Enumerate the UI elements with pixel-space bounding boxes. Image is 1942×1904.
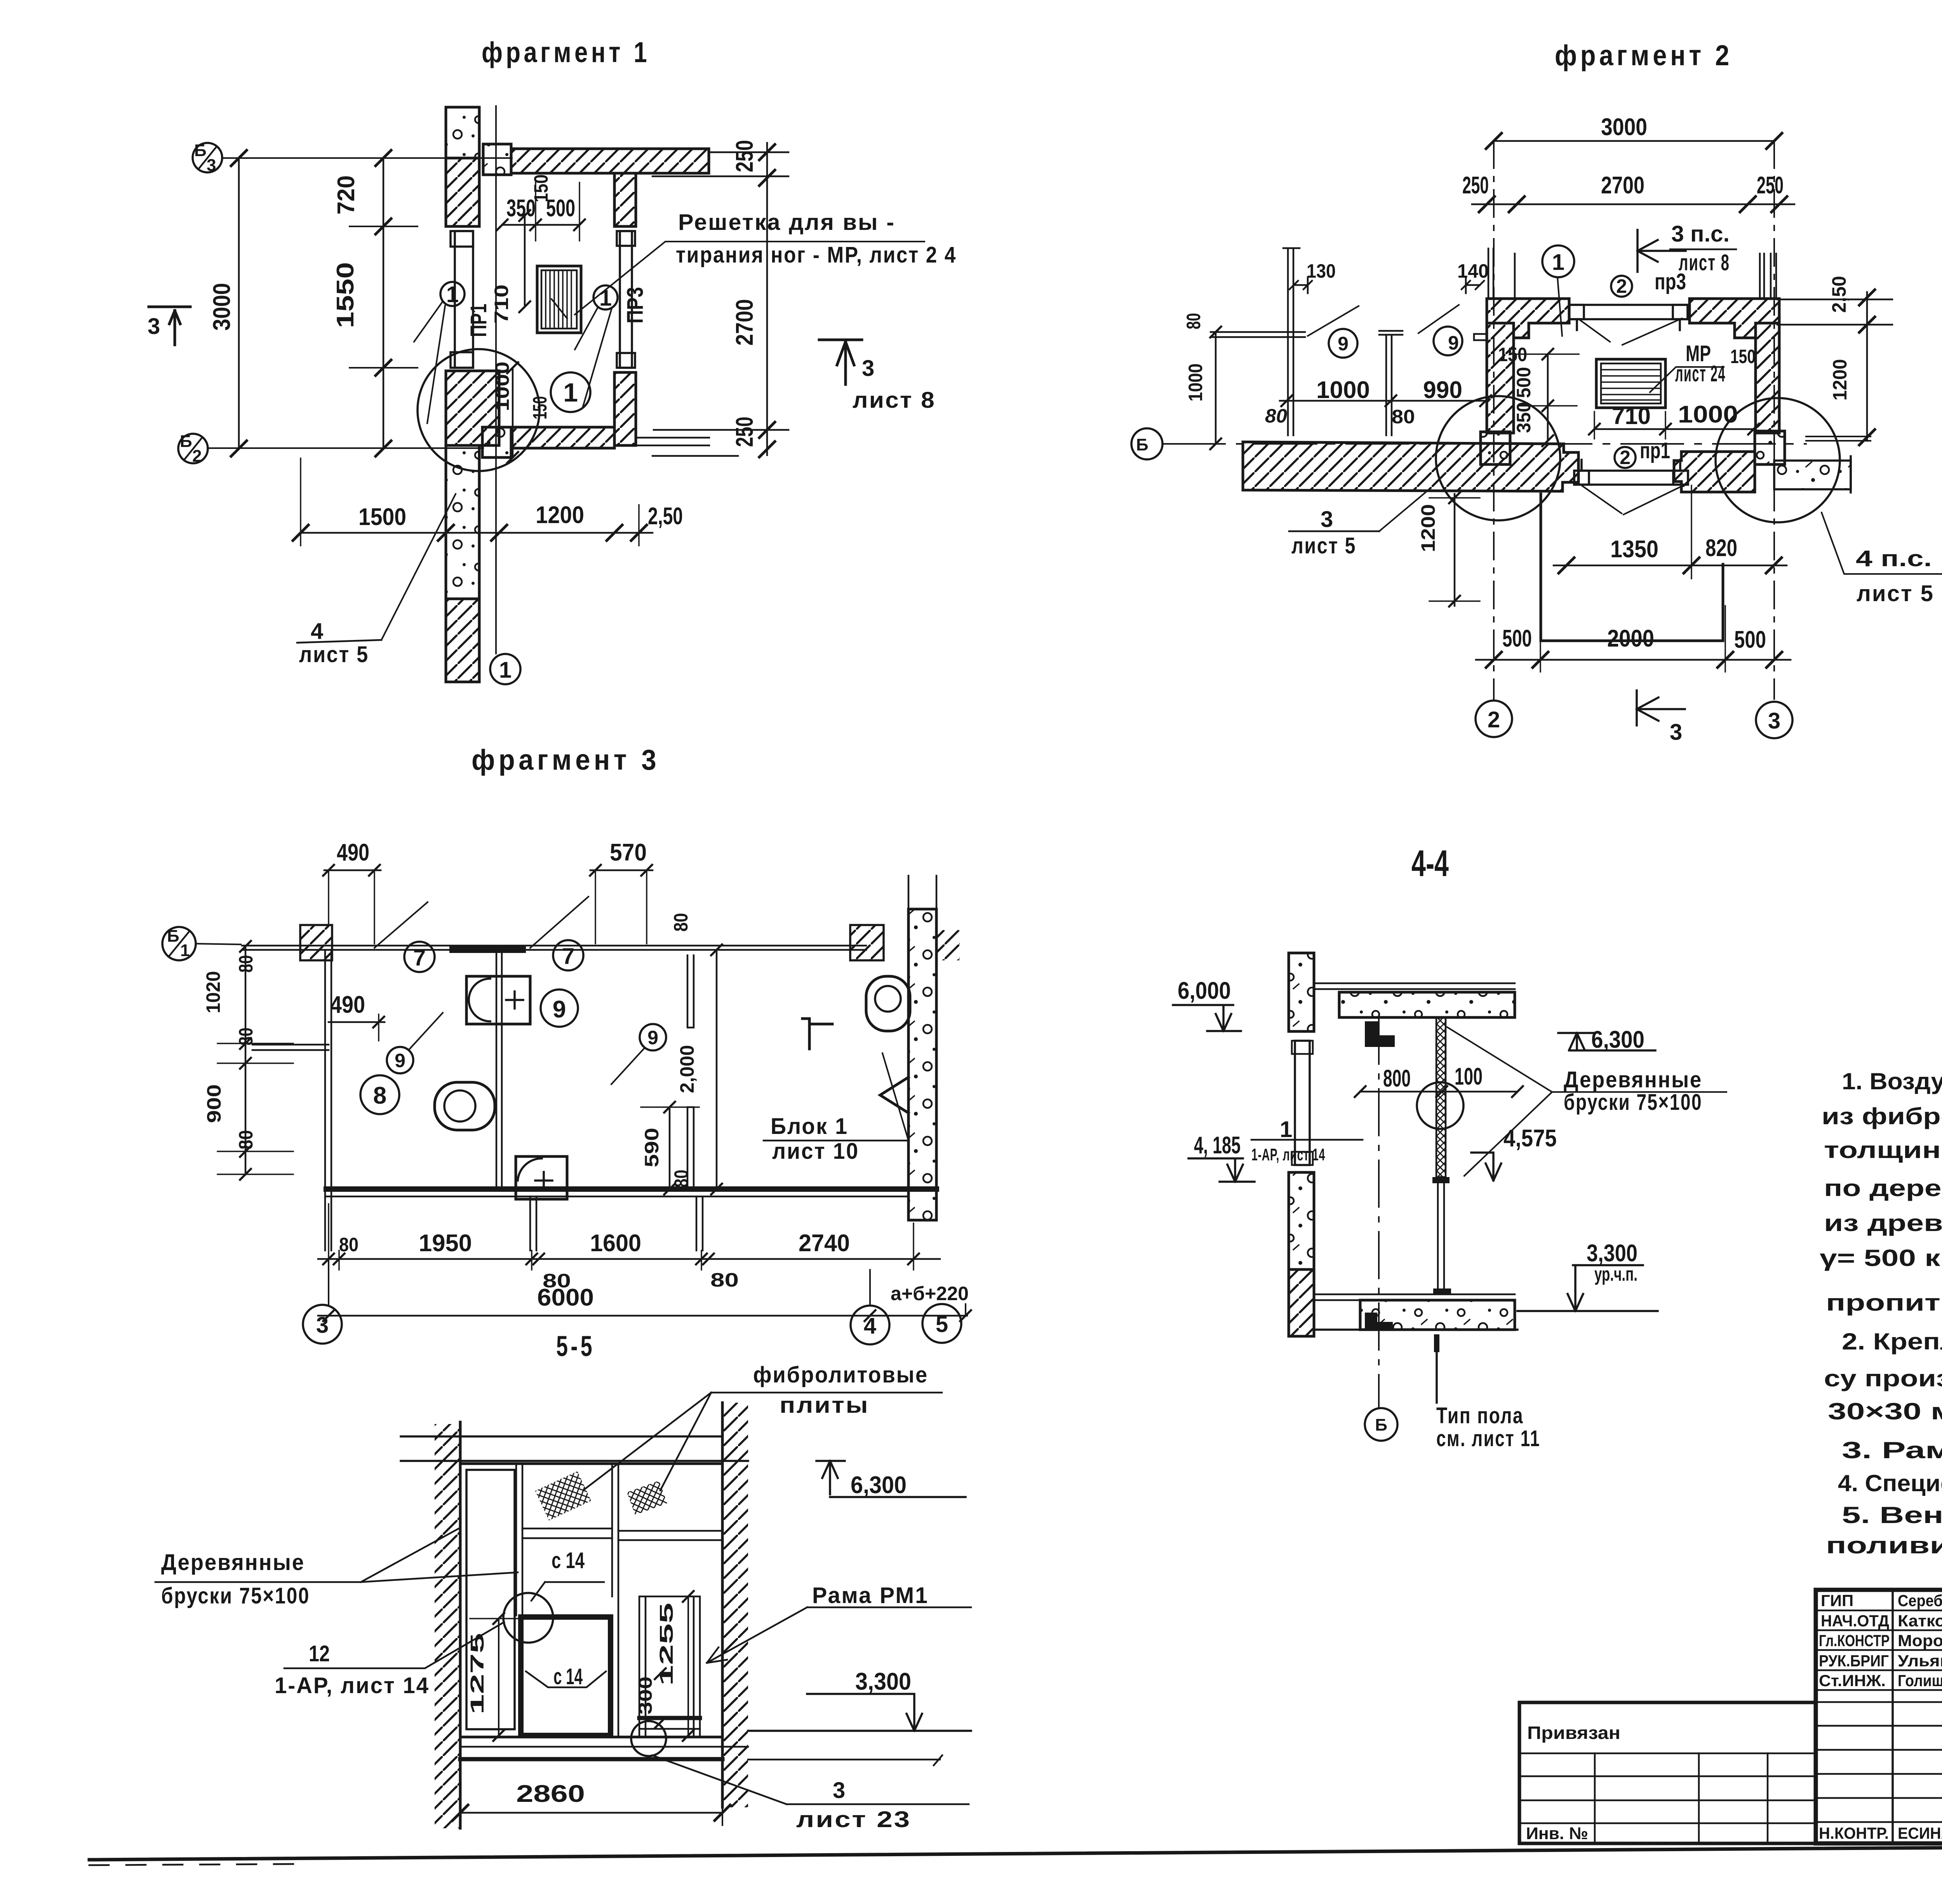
circle 2 pr1: [1615, 447, 1636, 468]
wall brick below window: [446, 371, 499, 445]
svg-text:Решетка для вы -: Решетка для вы -: [678, 210, 895, 235]
dim 1255: [687, 1596, 689, 1735]
svg-text:лист 8: лист 8: [853, 388, 936, 413]
svg-text:Ульянова: Ульянова: [1898, 1652, 1942, 1670]
leader slash 7a: [374, 902, 428, 948]
svg-text:100: 100: [1455, 1063, 1483, 1090]
axis circle B 44: [1365, 1408, 1397, 1441]
svg-text:ЕСИНА: ЕСИНА: [1898, 1824, 1942, 1842]
section arrow 3 bottom: [1637, 690, 1685, 725]
svg-text:4 п.с.: 4 п.с.: [1856, 546, 1932, 571]
elev 4185 mark: [1189, 1158, 1255, 1182]
svg-text:1500: 1500: [358, 504, 406, 530]
dim line 3000 top: [1494, 140, 1774, 142]
svg-text:из древесины хвойных пород: из древесины хвойных пород с объёмной ма…: [1824, 1210, 1942, 1236]
svg-text:по деревянному каркасу сеч.: по деревянному каркасу сеч. 100×75. Карк…: [1824, 1175, 1942, 1201]
top wall band: [511, 149, 709, 173]
svg-text:4-4: 4-4: [1411, 843, 1449, 884]
svg-text:250: 250: [1757, 172, 1784, 199]
right dim line 250/2700/250: [766, 143, 768, 455]
svg-text:Рама РМ1: Рама РМ1: [812, 1583, 929, 1608]
svg-text:2700: 2700: [731, 299, 758, 346]
bottom dim line 2: [318, 1315, 967, 1317]
svg-text:80: 80: [235, 1028, 257, 1045]
svg-text:бруски 75×100: бруски 75×100: [161, 1583, 310, 1608]
big detail circle: [418, 349, 539, 471]
svg-text:с 14: с 14: [552, 1548, 585, 1573]
right stub partition upper: [687, 955, 694, 1028]
svg-text:Катков: Катков: [1898, 1612, 1942, 1630]
axis circle B/3: [193, 143, 222, 172]
svg-text:250: 250: [731, 417, 758, 447]
leader MR: [1650, 367, 1724, 392]
signature table texts: [1819, 1591, 1942, 1842]
window PR3 frame: [617, 231, 635, 368]
leader 4 ps bottom right: [1822, 513, 1942, 574]
dim line 350/500: [502, 224, 579, 226]
room circle 1: [551, 372, 590, 412]
svg-text:ПР1: ПР1: [466, 304, 491, 337]
svg-text:2: 2: [1620, 447, 1631, 468]
bottom dim line 1500/1200/250: [301, 532, 653, 534]
svg-text:плиты: плиты: [780, 1393, 869, 1418]
horizontal dim 1000/990: [1280, 400, 1487, 402]
svg-text:Серебрякова: Серебрякова: [1898, 1591, 1942, 1610]
svg-text:тирания ног - МР, лист 2 4: тирания ног - МР, лист 2 4: [676, 242, 957, 268]
mid partition vertical: [496, 953, 502, 1187]
svg-text:1-АР, лист 14: 1-АР, лист 14: [275, 1673, 430, 1698]
axis circle B/2: [178, 434, 208, 463]
right anchor pier: [1755, 431, 1785, 464]
detail circle B 55: [631, 1721, 666, 1756]
window PR1 bottom: [1574, 460, 1688, 485]
bold panel c14: [521, 1617, 611, 1735]
svg-text:1000: 1000: [1316, 377, 1370, 403]
grid 3 dash line: [1773, 141, 1775, 699]
svg-text:9: 9: [1448, 332, 1459, 354]
elev 6000 mark: [1173, 1005, 1241, 1031]
detail circle right: [1716, 398, 1840, 522]
svg-text:Б: Б: [180, 432, 192, 451]
grating MR: [537, 266, 581, 333]
svg-text:су производить гвоздями с: су производить гвоздями с шайбами размер…: [1824, 1365, 1942, 1391]
svg-text:3,300: 3,300: [855, 1668, 911, 1695]
corner bracket top: [1365, 1021, 1395, 1047]
svg-text:590: 590: [641, 1128, 663, 1167]
circle 2 pr3: [1611, 276, 1632, 297]
dim 490 mid: [329, 1021, 385, 1023]
bottom right wall band: [1674, 452, 1755, 492]
svg-text:2,50: 2,50: [1828, 276, 1850, 313]
top wall thick bar: [449, 946, 526, 953]
wall stub lines above shaft: [1488, 249, 1776, 299]
svg-text:Б: Б: [167, 927, 179, 946]
svg-text:1600: 1600: [590, 1230, 641, 1257]
left partition 1: [1211, 248, 1305, 435]
svg-text:130: 130: [1307, 260, 1336, 282]
elev 3300 mark: [1517, 1265, 1658, 1311]
svg-text:1000: 1000: [1678, 401, 1738, 428]
grid circle 1 bottom: [490, 654, 520, 684]
dim 490 top: [324, 869, 381, 871]
svg-text:Б: Б: [194, 141, 207, 160]
leader 3 list 5: [1379, 489, 1430, 531]
svg-text:710: 710: [491, 285, 512, 324]
window frame in wall: [1295, 1041, 1310, 1165]
svg-text:НАЧ.ОТД: НАЧ.ОТД: [1821, 1612, 1889, 1630]
svg-text:Деревянные: Деревянные: [161, 1550, 305, 1575]
flag circle 1 right: [593, 285, 618, 310]
svg-text:990: 990: [1423, 377, 1462, 403]
top lines 55: [401, 1436, 748, 1461]
circle 7b: [553, 940, 583, 970]
svg-text:лист 24: лист 24: [1675, 361, 1726, 386]
leader 4 list 5: [381, 494, 456, 640]
bottom sill lines 55: [460, 1746, 748, 1748]
stud base plate: [1433, 1288, 1451, 1294]
dim 590: [669, 1107, 671, 1189]
svg-text:8: 8: [373, 1082, 386, 1109]
svg-text:80: 80: [339, 1234, 358, 1255]
svg-text:Деревянные: Деревянные: [1564, 1067, 1702, 1092]
svg-text:1-АР, лист 14: 1-АР, лист 14: [1251, 1145, 1325, 1164]
svg-text:3: 3: [1670, 720, 1682, 745]
axis B line: [1163, 443, 1806, 445]
svg-text:30×30 мм. Шаг гвоздей -: 30×30 мм. Шаг гвоздей - 300 мм.: [1828, 1398, 1942, 1424]
wall concrete upper: [1289, 953, 1314, 1031]
svg-text:3000: 3000: [209, 283, 235, 331]
svg-text:поливинилацеташными краскам: поливинилацеташными красками.: [1826, 1532, 1942, 1558]
svg-text:9: 9: [647, 1027, 658, 1049]
svg-text:ГИП: ГИП: [1821, 1591, 1853, 1610]
shaft top wall right band: [1690, 299, 1779, 338]
svg-text:Б: Б: [1375, 1415, 1387, 1435]
wc pan left: [435, 1082, 495, 1130]
svg-text:лист 5: лист 5: [1291, 533, 1356, 558]
crosshatch blob 2: [627, 1481, 667, 1515]
circle 9 b: [1434, 327, 1462, 355]
leader 3 list23: [652, 1755, 969, 1804]
partition below wall 2: [696, 1196, 703, 1250]
svg-text:Морозова: Морозова: [1898, 1631, 1942, 1650]
svg-text:бруски 75×100: бруски 75×100: [1564, 1090, 1702, 1115]
svg-text:500: 500: [1513, 367, 1535, 398]
svg-text:9: 9: [553, 996, 566, 1023]
svg-text:3: 3: [1768, 708, 1780, 734]
svg-text:150: 150: [1730, 346, 1756, 367]
dim 2000 right: [716, 950, 718, 1189]
svg-text:9: 9: [395, 1050, 405, 1071]
dim 500/2000/500: [1476, 659, 1791, 661]
svg-text:1: 1: [499, 657, 512, 683]
svg-text:570: 570: [610, 839, 647, 866]
svg-text:пр1: пр1: [1640, 438, 1670, 463]
dim 1350/820: [1554, 565, 1787, 567]
svg-text:1350: 1350: [1610, 536, 1658, 563]
svg-text:лист 5: лист 5: [299, 642, 369, 667]
leader derevyannye: [1447, 1027, 1726, 1176]
V leader bottom window: [1582, 485, 1682, 515]
svg-text:7: 7: [413, 945, 426, 970]
right stub partition lower: [687, 1107, 694, 1187]
svg-text:1: 1: [446, 282, 459, 307]
dim line 720/1550 vertical: [383, 158, 385, 449]
dim 710/1000 line: [1594, 428, 1756, 430]
wc right: [866, 976, 910, 1031]
svg-text:1. Воздухозаборная шахта: 1. Воздухозаборная шахта венткамеры выпо…: [1842, 1068, 1942, 1094]
mid top cell lines: [522, 1528, 612, 1538]
svg-text:300: 300: [635, 1676, 656, 1714]
svg-text:4, 185: 4, 185: [1194, 1132, 1241, 1159]
svg-text:3: 3: [316, 1313, 329, 1338]
small dim 500/350: [1547, 354, 1549, 441]
dim 1200 left vertical: [1454, 494, 1456, 606]
svg-text:2000: 2000: [1607, 625, 1654, 652]
svg-text:1255: 1255: [656, 1603, 677, 1686]
leader rama PM1: [707, 1607, 971, 1663]
svg-text:2,50: 2,50: [648, 503, 683, 530]
svg-text:фрагмент 3: фрагмент 3: [472, 744, 660, 776]
dim 1000 inner vertical: [512, 368, 514, 457]
svg-text:лист 8: лист 8: [1679, 250, 1730, 275]
dim 800/100 line: [1360, 1091, 1517, 1093]
svg-text:5. Вентшахту окрасить с: 5. Вентшахту окрасить с внутренней сторо…: [1842, 1502, 1942, 1528]
corner bracket bottom: [1365, 1313, 1393, 1330]
left wall band: [1487, 323, 1514, 433]
axis line B/3: [222, 157, 512, 159]
small table border: [1519, 1702, 1816, 1843]
label 1 underline: [1251, 1139, 1363, 1141]
Blok 1 leader: [764, 1140, 908, 1142]
right wall bottom: [614, 372, 636, 445]
wall brick upper: [446, 158, 479, 226]
dim line 250/2700/250: [1472, 203, 1794, 205]
svg-text:5: 5: [936, 1312, 948, 1337]
right anchor square f3: [850, 925, 884, 960]
dim line 3000 vertical: [238, 158, 240, 449]
stud plate mid: [1432, 1177, 1450, 1183]
svg-text:с 14: с 14: [553, 1664, 583, 1689]
svg-text:490: 490: [330, 991, 365, 1018]
partition below wall 1: [530, 1196, 536, 1250]
svg-text:3: 3: [207, 156, 216, 175]
wall pier concrete top: [446, 107, 479, 158]
circle 1 leader: [1542, 245, 1574, 277]
elev 4575 mark: [1471, 1153, 1501, 1181]
svg-text:350: 350: [506, 195, 536, 222]
wall pier concrete lower: [446, 445, 479, 599]
triangle door right: [880, 1077, 908, 1113]
svg-text:Гл.КОНСТР: Гл.КОНСТР: [1819, 1631, 1890, 1650]
svg-text:350: 350: [1513, 402, 1535, 433]
svg-text:1200: 1200: [1417, 504, 1439, 552]
svg-text:3: 3: [148, 314, 160, 339]
svg-text:4: 4: [864, 1313, 876, 1339]
right side ledge lines: [1777, 299, 1892, 325]
svg-text:Ст.ИНЖ.: Ст.ИНЖ.: [1819, 1671, 1886, 1690]
detail circle A 55: [503, 1593, 553, 1643]
dim 2860 55: [460, 1812, 722, 1814]
svg-text:Голишникова: Голишникова: [1898, 1671, 1942, 1690]
leader slash 7b: [530, 897, 588, 948]
bottom wall band: [511, 427, 614, 448]
V leader top window: [1579, 318, 1682, 345]
grid 2 dash line: [1493, 141, 1495, 699]
bottom frame line: [89, 1844, 1942, 1860]
dim 570 top: [590, 869, 653, 871]
axis circle B1 f3: [162, 927, 196, 960]
leader 12: [284, 1622, 504, 1668]
svg-text:800: 800: [1383, 1065, 1411, 1092]
svg-text:Б: Б: [1136, 435, 1148, 454]
svg-text:см. лист 11: см. лист 11: [1436, 1426, 1540, 1451]
ceiling top lines: [1314, 983, 1515, 989]
small wall tick left of wall: [1474, 334, 1487, 340]
svg-text:80: 80: [235, 955, 257, 973]
wall concrete mid: [1289, 1172, 1314, 1269]
svg-text:Привязан: Привязан: [1527, 1723, 1620, 1743]
wall brick bottom: [446, 599, 479, 682]
svg-text:1: 1: [1552, 250, 1564, 275]
sink bottom-center: [516, 1156, 567, 1199]
bottom anchor square: [482, 427, 511, 457]
axis line B/2: [207, 447, 483, 449]
ceiling slab: [1339, 992, 1515, 1017]
vertical divider 1: [516, 1464, 522, 1615]
right wall concrete: [908, 909, 936, 1220]
section arrow 3 left: [149, 307, 190, 345]
left anchor pier: [1481, 432, 1510, 464]
elev 6300 mark: [1558, 1033, 1655, 1050]
svg-text:80: 80: [235, 1130, 257, 1149]
svg-text:3,300: 3,300: [1587, 1240, 1637, 1267]
section arrow 3 right: [819, 340, 862, 384]
top wall line: [242, 946, 866, 950]
grating MR f2: [1596, 359, 1665, 408]
left partition 2: [1379, 331, 1403, 435]
PM1 frame members: [639, 1596, 700, 1737]
grid lines to circles: [329, 1259, 966, 1316]
svg-text:3 п.с.: 3 п.с.: [1671, 221, 1730, 247]
left room stub wall: [252, 1045, 329, 1050]
title block outer border: [1816, 1590, 1942, 1843]
svg-text:140: 140: [1457, 260, 1489, 282]
svg-text:4. Спецификацию металлических: 4. Спецификацию металлических изделий ко…: [1838, 1470, 1942, 1496]
svg-text:γ= 500 кг/м³ и влажностью: γ= 500 кг/м³ и влажностью не более 20% с…: [1820, 1245, 1942, 1271]
svg-text:80: 80: [710, 1269, 739, 1291]
svg-text:250: 250: [731, 140, 758, 172]
leader fibrolit: [585, 1393, 942, 1490]
svg-text:Инв. №: Инв. №: [1526, 1824, 1588, 1843]
right wall band: [1756, 323, 1779, 433]
vertical divider 2: [612, 1464, 618, 1737]
leader derevyannye 55: [155, 1528, 518, 1582]
svg-text:9: 9: [1338, 333, 1349, 355]
left dim column: [245, 946, 247, 1174]
floor slab: [1360, 1300, 1515, 1330]
svg-text:6,300: 6,300: [851, 1472, 907, 1499]
svg-text:1: 1: [563, 378, 578, 407]
pit outline: [1541, 494, 1723, 641]
right dim 2.50/1200: [1866, 292, 1868, 441]
axis dash line 44: [1378, 1017, 1380, 1407]
svg-text:1000: 1000: [491, 362, 513, 411]
svg-text:80: 80: [670, 1170, 692, 1188]
svg-text:7: 7: [562, 944, 574, 969]
svg-text:ур.ч.п.: ур.ч.п.: [1594, 1263, 1637, 1285]
svg-text:2700: 2700: [1601, 172, 1644, 199]
crosshatch blob 1: [535, 1471, 591, 1521]
svg-text:a+б+220: a+б+220: [891, 1283, 969, 1304]
dim 1275: [498, 1619, 499, 1735]
window PR1 frame: [451, 231, 473, 368]
svg-text:толщиной 100 мм. (ГОСТ 8: толщиной 100 мм. (ГОСТ 8928-70): [1824, 1137, 1942, 1163]
svg-text:80: 80: [1183, 313, 1204, 329]
left wall hatch 55: [435, 1424, 460, 1828]
svg-text:500: 500: [1502, 625, 1532, 652]
box outline 55: [460, 1464, 722, 1737]
svg-text:6,000: 6,000: [1178, 977, 1231, 1004]
svg-text:лист 23: лист 23: [796, 1807, 911, 1832]
svg-text:2,000: 2,000: [676, 1045, 698, 1093]
svg-text:1275: 1275: [467, 1633, 488, 1714]
svg-text:Блок 1: Блок 1: [771, 1114, 848, 1139]
svg-text:710: 710: [1612, 403, 1651, 429]
pipe L right: [802, 1019, 832, 1049]
top anchor square: [483, 144, 511, 175]
svg-text:Н.КОНТР.: Н.КОНТР.: [1819, 1824, 1889, 1842]
svg-text:пропиткой антипиренами.: пропиткой антипиренами.: [1826, 1290, 1942, 1316]
top right ledge double line: [653, 152, 788, 176]
small table rows: [1519, 1753, 1816, 1823]
hatch patch right of anchor: [936, 930, 960, 960]
circle 7a: [404, 942, 435, 972]
grid circle 2: [1476, 701, 1512, 737]
svg-text:6,300: 6,300: [1591, 1026, 1644, 1053]
left partition vertical: [325, 950, 331, 1250]
right wall hatch 55: [722, 1403, 748, 1807]
floor top lines: [1314, 1294, 1515, 1300]
svg-text:500: 500: [1734, 626, 1766, 653]
shaft top wall left band: [1487, 299, 1569, 338]
svg-text:3. Рама РМ1 дана на: 3. Рама РМ1 дана на листе 25.: [1842, 1437, 1942, 1463]
bottom paper edge dashes: [89, 1864, 295, 1865]
svg-text:3: 3: [1321, 507, 1333, 532]
floor slab left: [1243, 442, 1578, 491]
c14 chevron: [526, 1671, 606, 1687]
svg-text:2. Крепление фибролитовых п: 2. Крепление фибролитовых плит к деревян…: [1842, 1328, 1942, 1355]
detail circle left: [1436, 396, 1560, 520]
stud crosshatch: [1436, 1017, 1446, 1177]
circle 9a: [387, 1047, 413, 1073]
detail circle 44: [1417, 1082, 1463, 1129]
svg-text:1020: 1020: [202, 971, 224, 1014]
svg-text:720: 720: [333, 176, 360, 215]
svg-text:1200: 1200: [1829, 359, 1851, 401]
svg-text:1550: 1550: [332, 262, 359, 328]
grid line 1 vertical: [495, 106, 497, 654]
axis circle B: [1131, 428, 1162, 459]
svg-text:5-5: 5-5: [556, 1330, 595, 1362]
left vertical dim 80/1000: [1215, 332, 1217, 444]
svg-text:2740: 2740: [799, 1230, 850, 1257]
bottom right ledge double line: [637, 430, 788, 456]
svg-text:из фибролитовых плит с объ: из фибролитовых плит с объёмной массой γ…: [1822, 1103, 1942, 1129]
svg-text:2860: 2860: [516, 1781, 585, 1807]
svg-text:2: 2: [1488, 707, 1500, 732]
svg-text:фрагмент 1: фрагмент 1: [482, 36, 650, 68]
svg-text:250: 250: [1462, 172, 1489, 199]
